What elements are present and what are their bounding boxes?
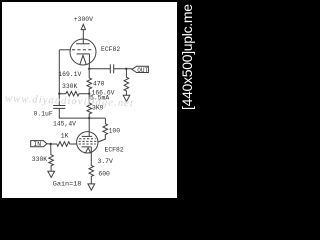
wire plate V2	[88, 118, 90, 136]
V1 grid (dashed)	[72, 49, 94, 51]
svg-text:+300V: +300V	[74, 16, 93, 23]
IN terminal tag	[31, 141, 47, 147]
V1 plate	[76, 43, 90, 45]
resistor 470	[87, 69, 92, 94]
svg-text:ECF82: ECF82	[101, 46, 120, 53]
resistor 330K (grid bias)	[59, 91, 89, 96]
svg-text:330K: 330K	[62, 83, 78, 90]
svg-text:IN: IN	[33, 141, 41, 148]
node OUT	[125, 68, 127, 70]
V2 cathode	[82, 146, 92, 148]
wire cap to node B	[59, 108, 105, 118]
resistor 100 (screen)	[98, 118, 108, 142]
V2 control grid (dashed)	[79, 143, 96, 145]
schematic drawing	[2, 2, 177, 198]
ground (out load)	[123, 95, 130, 101]
wire grid branch vertical	[58, 50, 60, 106]
node input	[50, 143, 52, 145]
supply +300V arrow	[81, 24, 85, 29]
V1 cathode	[77, 53, 90, 55]
svg-text:100: 100	[109, 127, 121, 134]
V2 suppressor grid (dashed)	[79, 138, 95, 140]
wire V1 grid lead	[59, 49, 70, 51]
V2 screen grid (dashed)	[79, 140, 97, 142]
resistor load (out)	[124, 69, 129, 96]
svg-text:0.1uF: 0.1uF	[34, 110, 53, 117]
node 145.4V	[88, 117, 90, 119]
svg-text:Gain=18: Gain=18	[53, 180, 82, 188]
tube V1 triode ECF82 envelope	[70, 39, 96, 65]
right banner watermark [440x500]uplc.me	[177, 0, 198, 204]
svg-text:330K: 330K	[32, 156, 48, 163]
svg-text:www.diyaudiovillage.net: www.diyaudiovillage.net	[5, 94, 134, 110]
svg-text:ECF82: ECF82	[105, 146, 124, 153]
svg-text:[440x500]uplc.me: [440x500]uplc.me	[179, 4, 195, 110]
resistor 600 (cathode)	[89, 165, 94, 184]
wire node to output cap	[89, 68, 110, 70]
OUT terminal tag	[132, 66, 149, 72]
svg-text:169.1V: 169.1V	[58, 71, 81, 78]
node 166.6V	[88, 93, 90, 95]
wire V2 grid lead	[70, 143, 76, 145]
node grid bias	[58, 93, 60, 95]
wire cap to out node	[114, 68, 132, 70]
svg-text:OUT: OUT	[137, 67, 148, 74]
wire V1 cathode to node	[88, 54, 90, 69]
ground (input)	[48, 171, 55, 177]
resistor 1K grid stopper	[51, 142, 71, 147]
capacitor output coupling	[109, 64, 111, 73]
svg-text:1K: 1K	[61, 132, 69, 139]
wire V2 cathode down	[90, 147, 92, 166]
resistor 3K9	[87, 94, 92, 118]
ground (cathode)	[88, 184, 95, 190]
V2 plate	[82, 135, 92, 137]
svg-text:3.7V: 3.7V	[98, 158, 114, 165]
tube V2 pentode ECF82 envelope	[77, 132, 98, 153]
V1 heater	[80, 55, 86, 64]
svg-text:145,4V: 145,4V	[53, 121, 76, 128]
svg-text:600: 600	[98, 171, 110, 178]
resistor 330K (input)	[49, 144, 54, 171]
V2 heater	[85, 148, 91, 154]
wire supply to plate V1	[82, 30, 84, 44]
capacitor 0.1uF	[53, 105, 65, 107]
wire IN to node	[47, 143, 51, 145]
svg-text:470: 470	[93, 80, 105, 87]
node cathode V1 (169.1V)	[88, 68, 90, 70]
